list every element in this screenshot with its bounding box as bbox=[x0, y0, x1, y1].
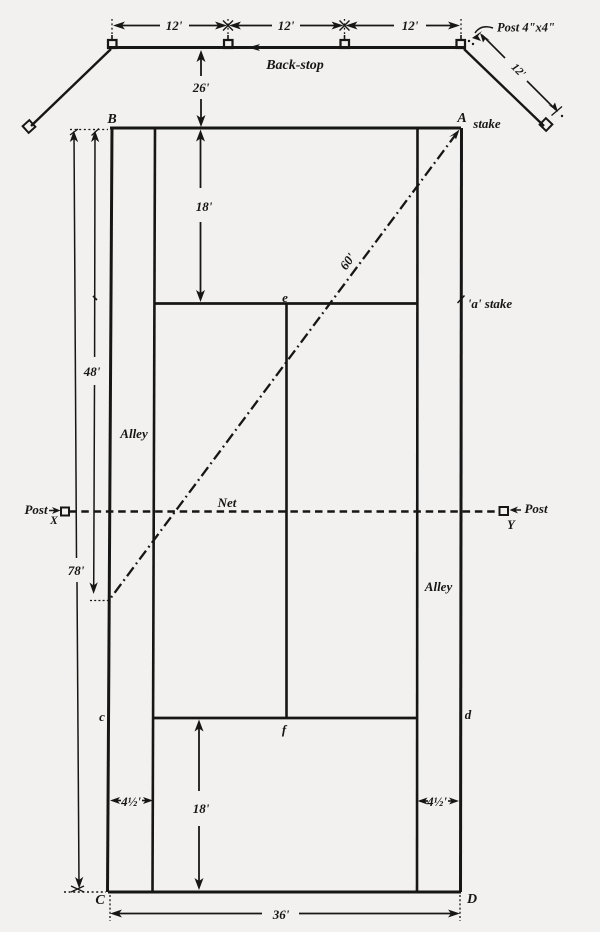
svg-text:48': 48' bbox=[83, 364, 101, 379]
svg-text:4½': 4½' bbox=[426, 794, 447, 809]
svg-text:B: B bbox=[106, 112, 116, 127]
svg-text:D: D bbox=[466, 892, 477, 907]
svg-text:Post 4"x4": Post 4"x4" bbox=[497, 21, 555, 35]
svg-text:Net: Net bbox=[217, 495, 237, 510]
svg-text:e: e bbox=[282, 290, 288, 305]
svg-text:12': 12' bbox=[166, 18, 183, 33]
svg-text:C: C bbox=[95, 893, 105, 908]
svg-text:18': 18' bbox=[193, 801, 210, 816]
svg-text:18': 18' bbox=[196, 199, 213, 214]
svg-text:X: X bbox=[49, 515, 58, 527]
svg-text:36': 36' bbox=[272, 907, 290, 922]
svg-text:Post: Post bbox=[524, 501, 548, 516]
svg-text:12': 12' bbox=[278, 18, 295, 33]
svg-text:A: A bbox=[456, 111, 466, 126]
svg-text:stake: stake bbox=[472, 116, 501, 131]
svg-text:78': 78' bbox=[68, 563, 85, 578]
svg-text:Alley: Alley bbox=[424, 579, 453, 594]
svg-text:'a' stake: 'a' stake bbox=[468, 296, 513, 311]
svg-text:d: d bbox=[465, 707, 472, 722]
svg-text:12': 12' bbox=[402, 18, 419, 33]
svg-text:4½': 4½' bbox=[120, 794, 141, 809]
svg-text:c: c bbox=[99, 709, 105, 724]
svg-text:Post: Post bbox=[24, 502, 48, 517]
svg-text:Back-stop: Back-stop bbox=[265, 58, 324, 73]
svg-text:26': 26' bbox=[192, 80, 210, 95]
svg-text:Alley: Alley bbox=[119, 426, 148, 441]
